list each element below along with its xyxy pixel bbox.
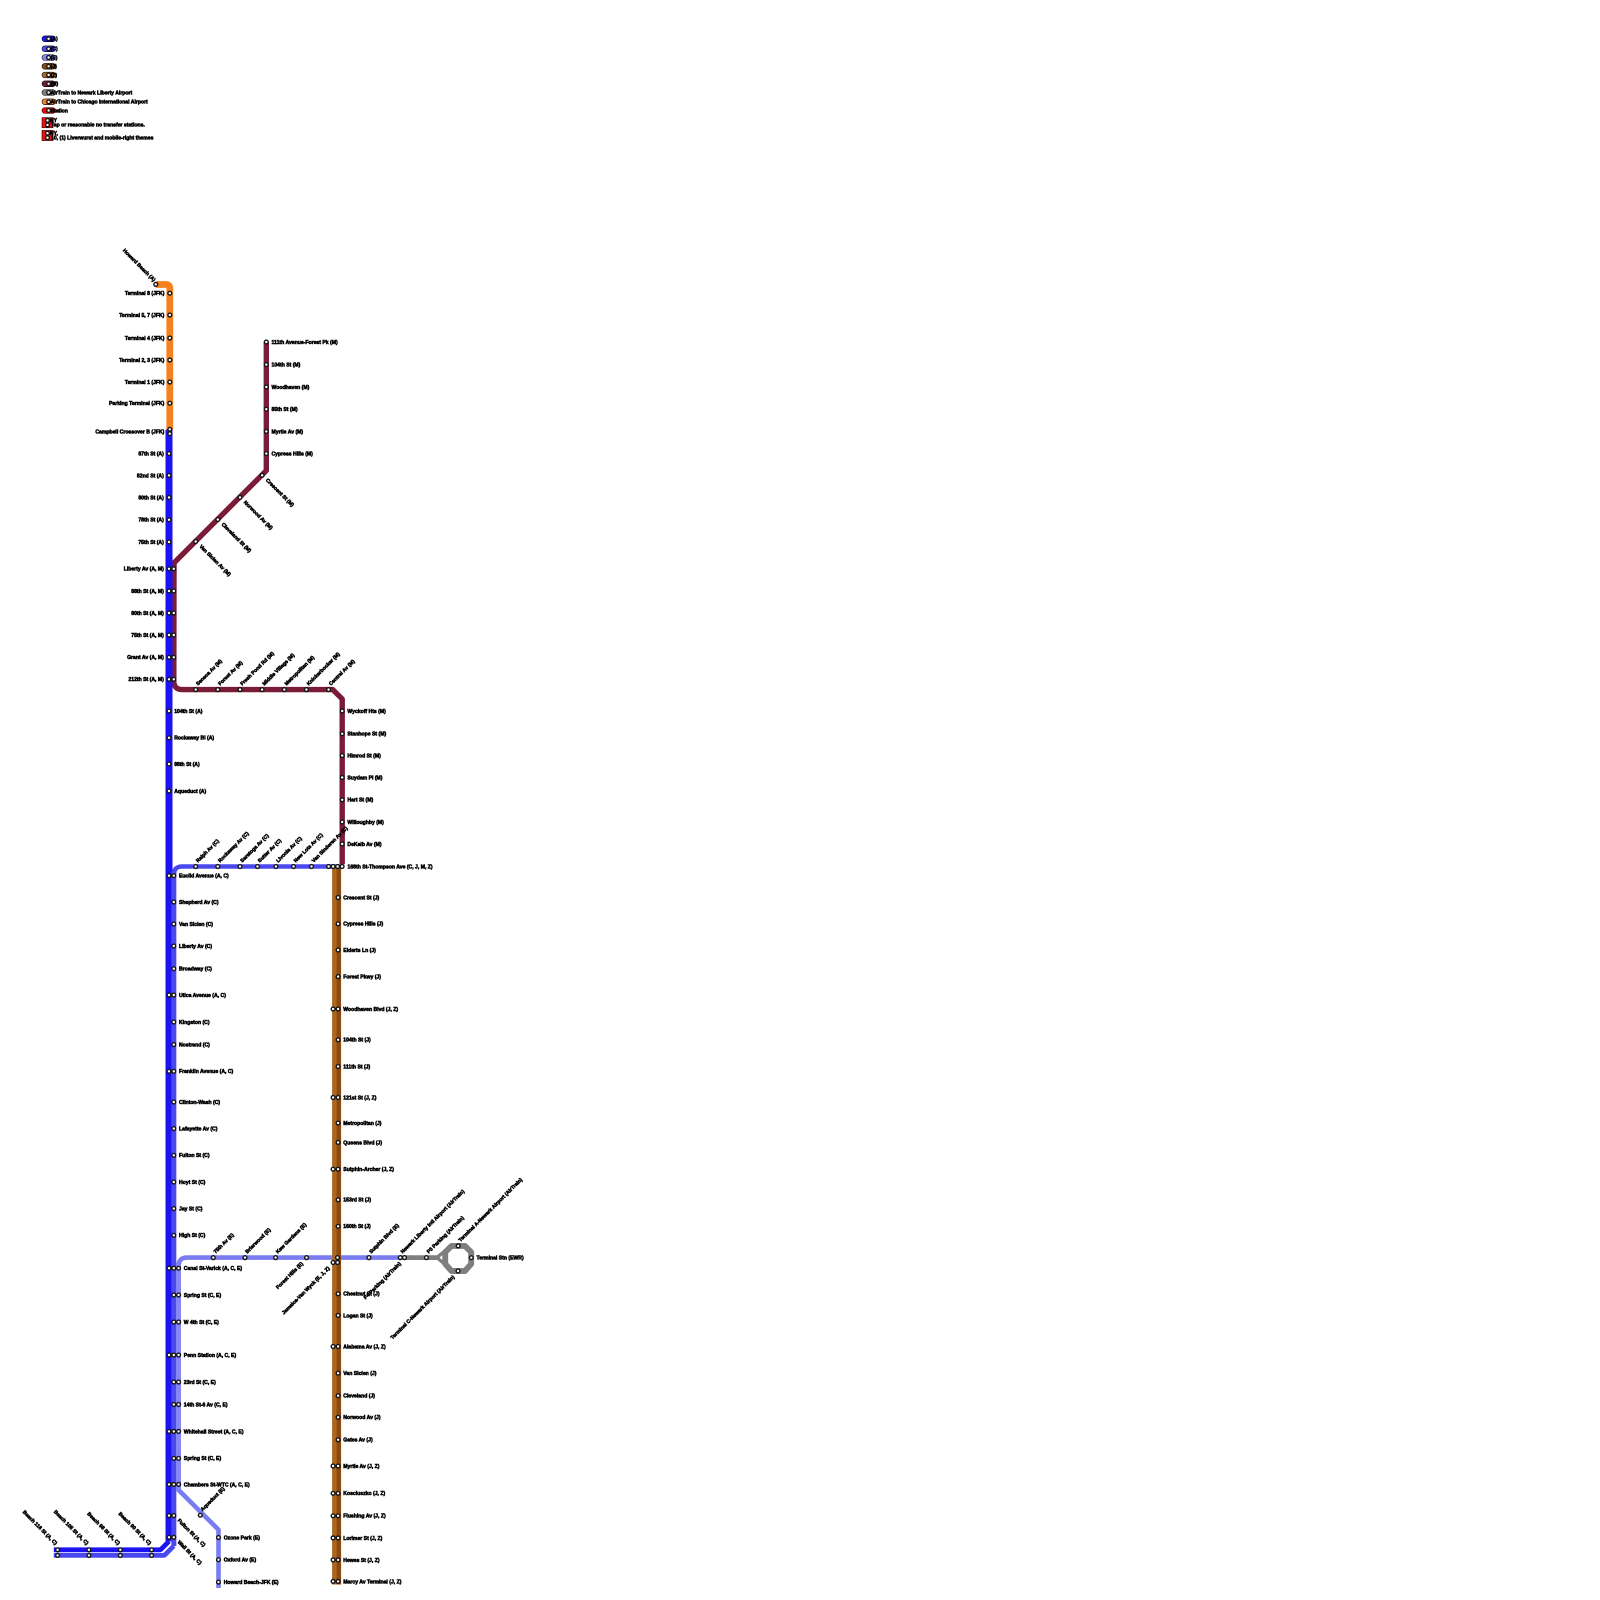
svg-text:Terminal 4 (JFK): Terminal 4 (JFK) — [125, 336, 165, 342]
legend — [42, 36, 56, 42]
svg-text:88th St (A, M): 88th St (A, M) — [131, 589, 164, 595]
svg-text:Penn Station (A, C, E): Penn Station (A, C, E) — [184, 1353, 237, 1359]
svg-text:Terminal 1 (JFK): Terminal 1 (JFK) — [125, 380, 165, 386]
svg-text:W 4th St (C, E): W 4th St (C, E) — [184, 1320, 219, 1326]
brown J/Z line (gradient rect) — [332, 869, 341, 1585]
svg-text:Broadway (C): Broadway (C) — [179, 967, 212, 973]
svg-text:23rd St (C, E): 23rd St (C, E) — [184, 1380, 216, 1386]
svg-text:Lorimer St (J, Z): Lorimer St (J, Z) — [343, 1536, 382, 1542]
svg-text:Hewes St (J, Z): Hewes St (J, Z) — [343, 1558, 380, 1564]
svg-text:Marcy Av Terminal (J, Z): Marcy Av Terminal (J, Z) — [343, 1579, 401, 1585]
svg-text:Wyckoff Hts (M): Wyckoff Hts (M) — [347, 709, 386, 715]
svg-text:Shepherd Av (C): Shepherd Av (C) — [179, 900, 219, 906]
svg-text:Hart St (M): Hart St (M) — [347, 798, 373, 804]
svg-text:Kingston (C): Kingston (C) — [179, 1020, 210, 1026]
svg-text:Nostrand (C): Nostrand (C) — [179, 1043, 210, 1049]
svg-text:87th St (A): 87th St (A) — [138, 452, 164, 458]
svg-text:Aqueduct (A): Aqueduct (A) — [174, 789, 206, 795]
svg-text:Franklin Avenue (A, C): Franklin Avenue (A, C) — [179, 1069, 234, 1075]
svg-text:Euclid Avenue (A, C): Euclid Avenue (A, C) — [179, 874, 229, 880]
svg-text:AirTrain to Newark Liberty Air: AirTrain to Newark Liberty Airport — [51, 90, 133, 96]
svg-text:104th St (M): 104th St (M) — [272, 363, 301, 369]
maroon M line — [174, 342, 342, 864]
svg-text:Van Siclen (C): Van Siclen (C) — [179, 922, 213, 928]
svg-text:Oxford Av (E): Oxford Av (E) — [224, 1558, 257, 1564]
svg-text:104th St (A): 104th St (A) — [174, 709, 203, 715]
svg-text:98th St (A): 98th St (A) — [174, 762, 200, 768]
svg-text:Cleveland (J): Cleveland (J) — [343, 1394, 375, 1400]
light blue E line: horizontal, trunk, branch — [179, 1258, 405, 1588]
svg-text:Station: Station — [51, 108, 68, 114]
svg-text:Howard Beach-JFK (E): Howard Beach-JFK (E) — [224, 1580, 279, 1586]
svg-text:168th St-Thompson Ave (C, J, M: 168th St-Thompson Ave (C, J, M, Z) — [348, 864, 433, 870]
svg-text:78th St (A): 78th St (A) — [138, 518, 164, 524]
svg-text:Cypress Hills (M): Cypress Hills (M) — [272, 452, 314, 458]
svg-text:Utica Avenue (A, C): Utica Avenue (A, C) — [179, 993, 226, 999]
svg-text:High St (C): High St (C) — [179, 1233, 206, 1239]
svg-text:(Z): (Z) — [51, 73, 58, 79]
svg-text:Tap or reasonable no transfer: Tap or reasonable no transfer stations. — [51, 123, 145, 129]
svg-text:Myrtle Av (J, Z): Myrtle Av (J, Z) — [343, 1464, 379, 1470]
blue A line trunk — [166, 430, 173, 1542]
svg-text:Whitehall Street (A, C, E): Whitehall Street (A, C, E) — [184, 1429, 244, 1435]
svg-text:Myrtle Av (M): Myrtle Av (M) — [272, 429, 304, 435]
medium blue C line: horizontal from junction + trunk — [174, 867, 342, 1547]
svg-text:Van Siclen (J): Van Siclen (J) — [343, 1371, 376, 1377]
svg-text:(A): (A) — [51, 37, 58, 43]
svg-text:Norwood Av (J): Norwood Av (J) — [343, 1415, 381, 1421]
svg-text:Clinton-Wash (C): Clinton-Wash (C) — [179, 1100, 220, 1106]
blue A line bottom corner + horizontal — [54, 1541, 169, 1550]
svg-text:111th St (J): 111th St (J) — [343, 1064, 370, 1070]
svg-text:(C): (C) — [51, 47, 58, 53]
svg-text:Lafayette Av (C): Lafayette Av (C) — [179, 1127, 218, 1133]
svg-text:(J): (J) — [51, 64, 58, 70]
svg-text:Willoughby (M): Willoughby (M) — [347, 820, 384, 826]
svg-text:Spring St (C, E): Spring St (C, E) — [184, 1293, 222, 1299]
svg-text:Logan St (J): Logan St (J) — [343, 1313, 373, 1319]
svg-text:Forest Pkwy (J): Forest Pkwy (J) — [343, 975, 381, 981]
svg-text:Fulton St (C): Fulton St (C) — [179, 1153, 210, 1159]
svg-text:Gates Av (J): Gates Av (J) — [343, 1438, 373, 1444]
svg-text:Hoyt St (C): Hoyt St (C) — [179, 1180, 206, 1186]
svg-text:Terminal 8 (JFK): Terminal 8 (JFK) — [125, 291, 165, 297]
svg-text:75th St (A, M): 75th St (A, M) — [131, 633, 164, 639]
svg-text:80th St (A, M): 80th St (A, M) — [131, 611, 164, 617]
svg-text:153rd St (J): 153rd St (J) — [343, 1198, 371, 1204]
gray AirTrain Newark line + terminal loop — [405, 1255, 440, 1260]
svg-text:DeKalb Av (M): DeKalb Av (M) — [347, 842, 381, 848]
svg-text:Parking Terminal (JFK): Parking Terminal (JFK) — [109, 401, 165, 407]
svg-text:Canal St-Varick (A, C, E): Canal St-Varick (A, C, E) — [184, 1266, 243, 1272]
svg-text:10, (1) Liverwurst and mobile-: 10, (1) Liverwurst and mobile-right them… — [51, 135, 154, 141]
svg-text:Terminal Stn (EWR): Terminal Stn (EWR) — [477, 1256, 524, 1262]
svg-text:Crescent St (J): Crescent St (J) — [343, 895, 379, 901]
svg-text:104th St (J): 104th St (J) — [343, 1038, 371, 1044]
svg-text:14th St-6 Av (C, E): 14th St-6 Av (C, E) — [184, 1402, 228, 1408]
svg-text:Kosciuszko (J, Z): Kosciuszko (J, Z) — [343, 1491, 385, 1497]
svg-text:Campbell Crossover B (JFK): Campbell Crossover B (JFK) — [95, 429, 164, 435]
svg-text:Cypress Hills (J): Cypress Hills (J) — [343, 922, 383, 928]
svg-text:Terminal 5, 7 (JFK): Terminal 5, 7 (JFK) — [119, 313, 164, 319]
svg-text:82nd St (A): 82nd St (A) — [137, 473, 164, 479]
svg-text:Chambers St-WTC (A, C, E): Chambers St-WTC (A, C, E) — [184, 1482, 250, 1488]
svg-text:Sutphin-Archer (J, Z): Sutphin-Archer (J, Z) — [343, 1167, 394, 1173]
svg-text:Suydam Pl (M): Suydam Pl (M) — [347, 775, 382, 781]
svg-text:Woodhaven Blvd (J, Z): Woodhaven Blvd (J, Z) — [343, 1007, 398, 1013]
svg-text:121st St (J, Z): 121st St (J, Z) — [343, 1095, 376, 1101]
svg-text:Flushing Av (J, Z): Flushing Av (J, Z) — [343, 1514, 386, 1520]
svg-text:75th St (A): 75th St (A) — [138, 540, 164, 546]
svg-text:111th Avenue-Forest Pk (M): 111th Avenue-Forest Pk (M) — [272, 340, 338, 346]
svg-text:Chestnut St (J): Chestnut St (J) — [343, 1292, 380, 1298]
svg-text:Liberty Av (C): Liberty Av (C) — [179, 944, 212, 950]
svg-text:AirTrain to Chicago Internatio: AirTrain to Chicago International Airpor… — [51, 100, 148, 106]
svg-text:Spring St (C, E): Spring St (C, E) — [184, 1456, 222, 1462]
svg-text:Terminal 2, 3 (JFK): Terminal 2, 3 (JFK) — [119, 358, 164, 364]
svg-text:(E): (E) — [51, 55, 58, 61]
svg-text:Queens Blvd (J): Queens Blvd (J) — [343, 1140, 382, 1146]
svg-text:212th St (A, M): 212th St (A, M) — [128, 677, 164, 683]
svg-text:85th St (M): 85th St (M) — [272, 407, 298, 413]
svg-text:Metropolitan (J): Metropolitan (J) — [343, 1121, 382, 1127]
svg-text:80th St (A): 80th St (A) — [138, 495, 164, 501]
svg-text:(M): (M) — [51, 82, 59, 88]
orange AirTrain JFK line — [156, 285, 170, 431]
svg-text:Himrod St (M): Himrod St (M) — [347, 754, 381, 760]
svg-text:Jay St (C): Jay St (C) — [179, 1207, 203, 1213]
svg-text:Grant Av (A, M): Grant Av (A, M) — [127, 655, 164, 661]
svg-text:Elderts Ln (J): Elderts Ln (J) — [343, 948, 376, 954]
svg-text:160th St (J): 160th St (J) — [343, 1224, 371, 1230]
svg-text:Ozone Park (E): Ozone Park (E) — [224, 1535, 261, 1541]
svg-text:Liberty Av (A, M): Liberty Av (A, M) — [124, 567, 164, 573]
svg-text:Stanhope St (M): Stanhope St (M) — [347, 732, 386, 738]
svg-text:Woodhaven (M): Woodhaven (M) — [272, 385, 310, 391]
svg-text:Alabama Av (J, Z): Alabama Av (J, Z) — [343, 1344, 386, 1350]
svg-text:Rockaway Bl (A): Rockaway Bl (A) — [174, 736, 214, 742]
